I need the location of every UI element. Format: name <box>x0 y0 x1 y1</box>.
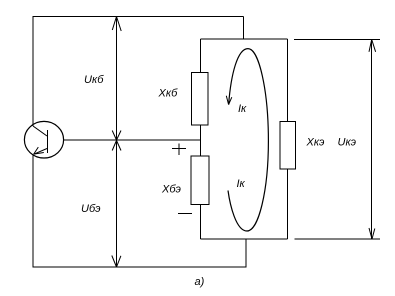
svg-text:Iк: Iк <box>237 178 246 190</box>
arrowhead down at bottom of Uкэ line <box>369 228 375 239</box>
svg-text:Хкб: Хкб <box>158 88 179 100</box>
transistor Q1 emitter arrowhead <box>34 147 44 154</box>
svg-text:Iк: Iк <box>238 103 247 115</box>
minus sign node <box>178 212 192 214</box>
transistor Q1 collector diagonal <box>33 126 47 136</box>
wire outer bottom <box>33 266 247 268</box>
arrowhead up at top of Uкб line <box>112 17 121 32</box>
plus sign node <box>172 143 186 155</box>
svg-text:Uкэ: Uкэ <box>338 137 357 149</box>
wire inner loop right lower <box>287 169 289 239</box>
wire connector bottom (inner loop bottom to outer bottom) <box>245 239 247 268</box>
svg-text:а): а) <box>195 276 205 288</box>
svg-text:Uбэ: Uбэ <box>81 203 101 215</box>
transistor Q1 body circle <box>24 121 63 158</box>
wire inner loop top <box>200 38 287 40</box>
arrowhead up at top of Uкэ line <box>369 40 376 52</box>
measure line Uкб/Uбэ vertical <box>116 17 118 268</box>
current loop Iк arrowhead <box>226 96 232 105</box>
wire outer left lower (emitter side) <box>32 155 34 268</box>
wire inner loop left lower <box>199 205 201 239</box>
resistor Xкб <box>192 72 209 125</box>
current loop Iк curve <box>228 49 268 231</box>
wire inner loop right upper <box>287 39 289 121</box>
wire outer top <box>33 16 244 18</box>
arrowhead down at middle crossing (Uкб) <box>112 131 121 141</box>
wire between Xкб and Xбэ <box>199 125 201 156</box>
wire right measure top <box>294 39 380 41</box>
wire inner loop left upper <box>199 39 201 72</box>
resistor Xбэ <box>191 156 209 205</box>
resistor Xкэ <box>280 121 295 169</box>
wire outer left upper (collector side) <box>32 17 34 127</box>
svg-text:Uкб: Uкб <box>84 74 104 86</box>
arrowhead down at bottom of Uбэ line <box>112 256 121 268</box>
svg-text:Хкэ: Хкэ <box>306 137 326 149</box>
arrowhead up at middle crossing (Uбэ) <box>112 141 121 151</box>
measure line Uкэ vertical <box>371 40 373 240</box>
transistor Q1 emitter diagonal <box>34 149 48 155</box>
svg-text:Хбэ: Хбэ <box>161 183 182 195</box>
transistor Q1 base bar <box>47 130 49 153</box>
wire connector top (outer top to inner loop top) <box>243 17 245 40</box>
wire right measure bottom <box>295 238 381 240</box>
wire inner loop bottom <box>200 238 287 240</box>
wire base lead (middle horizontal) <box>63 139 200 141</box>
